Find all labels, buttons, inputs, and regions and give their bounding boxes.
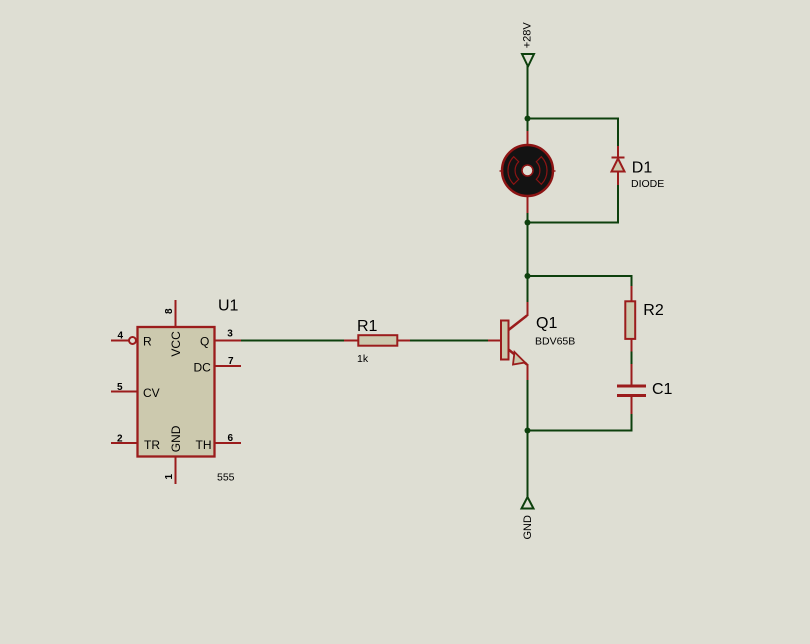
svg-text:BDV65B: BDV65B xyxy=(535,336,575,348)
label D1 xyxy=(632,159,653,176)
wire: motor junction down to collector branch xyxy=(527,213,529,302)
label Q1 xyxy=(536,315,557,332)
svg-text:VCC: VCC xyxy=(169,331,183,357)
wire: bottom horizontal of motor/diode loop xyxy=(528,222,619,224)
node: junction at emitter/bottom rail xyxy=(525,428,531,434)
node: junction below motor xyxy=(525,220,531,226)
wire: top horizontal to diode branch xyxy=(528,118,619,120)
label R1 xyxy=(357,318,378,335)
label 555 xyxy=(217,472,235,484)
svg-text:+28V: +28V xyxy=(522,22,534,49)
svg-text:3: 3 xyxy=(227,329,233,340)
label 1k xyxy=(357,353,369,365)
svg-text:1: 1 xyxy=(164,474,175,480)
power terminal +28V xyxy=(522,22,535,67)
pin 6 TH xyxy=(196,433,242,452)
svg-text:1k: 1k xyxy=(357,353,369,365)
wire: between R2 and C1 xyxy=(631,352,633,365)
svg-text:TR: TR xyxy=(144,438,160,452)
label R2 xyxy=(643,302,664,319)
wire: 555 output pin3 to R1 xyxy=(240,340,345,342)
svg-text:U1: U1 xyxy=(218,297,239,314)
wire: diode branch top vertical xyxy=(617,118,619,147)
label BDV65B xyxy=(535,336,575,348)
pin 4 R with bubble xyxy=(111,331,152,349)
svg-text:DC: DC xyxy=(194,361,212,375)
svg-text:2: 2 xyxy=(117,434,123,445)
svg-text:6: 6 xyxy=(228,433,234,444)
pin 2 TR xyxy=(111,434,160,453)
svg-text:DIODE: DIODE xyxy=(631,178,664,190)
svg-text:R2: R2 xyxy=(643,302,664,319)
node: junction above motor xyxy=(525,116,531,122)
svg-text:4: 4 xyxy=(118,331,124,342)
ground terminal xyxy=(522,497,535,540)
wire: C1 bottom to bottom rail xyxy=(631,414,633,432)
diode D1 xyxy=(612,146,625,185)
svg-text:CV: CV xyxy=(143,386,160,400)
pin 5 CV xyxy=(111,382,160,400)
svg-text:Q1: Q1 xyxy=(536,315,557,332)
pin 3 Q output xyxy=(200,329,241,349)
capacitor C1 xyxy=(617,364,646,414)
svg-text:R1: R1 xyxy=(357,318,378,335)
IC U1 555 timer body xyxy=(138,327,215,457)
transistor Q1 xyxy=(488,302,528,380)
wire: emitter down to ground junction xyxy=(527,380,529,497)
pin 1 GND bottom xyxy=(164,425,183,484)
wire: R1 to Q1 base xyxy=(410,340,488,342)
resistor R1 xyxy=(344,335,410,346)
svg-text:Q: Q xyxy=(200,335,209,349)
motor xyxy=(500,131,556,213)
svg-text:7: 7 xyxy=(228,356,234,367)
label DIODE xyxy=(631,178,664,190)
wire: collector branch horizontal to R2 xyxy=(528,275,632,277)
svg-text:TH: TH xyxy=(196,438,212,452)
svg-text:5: 5 xyxy=(117,382,123,393)
svg-text:R: R xyxy=(143,335,152,349)
svg-text:C1: C1 xyxy=(652,381,673,398)
svg-text:555: 555 xyxy=(217,472,235,484)
pin 8 VCC top xyxy=(164,300,183,357)
svg-text:GND: GND xyxy=(169,425,183,452)
node: junction at collector branch xyxy=(525,273,531,279)
label C1 xyxy=(652,381,673,398)
wire: +28V terminal down to motor junction xyxy=(527,66,529,131)
wire: diode branch bottom vertical xyxy=(617,185,619,224)
pin 7 DC xyxy=(194,356,242,375)
svg-text:GND: GND xyxy=(522,515,534,540)
label U1 xyxy=(218,297,239,314)
resistor R2 xyxy=(625,286,635,352)
wire: R2 branch top stub xyxy=(631,275,633,287)
svg-text:D1: D1 xyxy=(632,159,653,176)
wire: bottom horizontal rail from R2/C1 branch to emitter xyxy=(528,430,632,432)
svg-text:8: 8 xyxy=(164,308,175,314)
